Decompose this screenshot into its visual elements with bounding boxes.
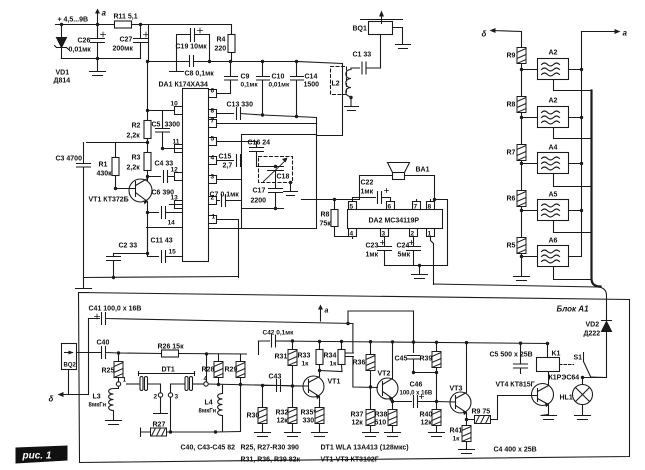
svg-text:1мк: 1мк xyxy=(361,189,374,196)
svg-text:R9 75: R9 75 xyxy=(472,409,491,416)
svg-text:R39: R39 xyxy=(420,356,433,363)
pin 7 xyxy=(209,120,317,128)
svg-text:1500: 1500 xyxy=(304,82,320,89)
filter A2 #1 xyxy=(538,59,569,80)
resistor R32 12к xyxy=(292,386,294,408)
wire S1 to VD2 line xyxy=(583,376,607,379)
pin 2 xyxy=(209,197,220,205)
diode VD2 xyxy=(602,319,612,378)
capacitor C40 xyxy=(100,347,119,359)
filter A5 xyxy=(538,200,569,221)
svg-text:R36: R36 xyxy=(353,360,366,367)
inductor L3 xyxy=(109,387,119,415)
svg-text:8: 8 xyxy=(428,204,432,211)
capacitor C22 xyxy=(353,192,391,204)
svg-text:2: 2 xyxy=(154,394,158,401)
capacitor C1 xyxy=(351,35,381,75)
svg-text:Д814: Д814 xyxy=(54,78,71,85)
svg-text:L2: L2 xyxy=(332,81,340,88)
capacitor C23 xyxy=(378,244,392,266)
svg-text:K1: K1 xyxy=(552,351,561,358)
capacitor C15 xyxy=(237,155,242,167)
svg-text:R26 15к: R26 15к xyxy=(158,344,185,351)
svg-text:C4 400 x 25В: C4 400 x 25В xyxy=(494,447,537,454)
box xyxy=(209,135,317,229)
svg-text:R1: R1 xyxy=(99,162,108,169)
svg-text:a: a xyxy=(325,308,329,315)
svg-text:C5 500 x 25В: C5 500 x 25В xyxy=(490,352,533,359)
svg-text:8: 8 xyxy=(211,108,215,115)
transistor VT1 (block) xyxy=(303,376,324,397)
svg-text:R4: R4 xyxy=(217,37,226,44)
capacitor C2 xyxy=(107,254,148,277)
resistor R26 15к xyxy=(162,350,179,357)
svg-text:C10: C10 xyxy=(272,74,285,81)
svg-text:L4: L4 xyxy=(205,400,213,407)
svg-text:R8: R8 xyxy=(321,212,330,219)
svg-text:0,1мк: 0,1мк xyxy=(241,82,259,89)
resistor R11 xyxy=(115,21,132,28)
svg-text:δ: δ xyxy=(49,395,54,404)
resistor R28 xyxy=(218,354,220,385)
pin 5 xyxy=(349,198,357,210)
wire C42 supply rail xyxy=(276,341,548,344)
svg-text:1к: 1к xyxy=(453,436,461,443)
diode VD1 zener xyxy=(61,25,63,59)
svg-text:C7 0,1мк: C7 0,1мк xyxy=(210,192,240,199)
inductor L2 dashed screen xyxy=(331,67,347,95)
svg-text:R29: R29 xyxy=(225,367,238,374)
svg-text:75к: 75к xyxy=(320,221,332,228)
svg-text:C15: C15 xyxy=(219,154,232,161)
resistor R7 xyxy=(517,145,526,161)
op-amp DA2 МС34119Р xyxy=(348,210,443,229)
resistor R29 xyxy=(240,354,242,432)
capacitor C27 xyxy=(134,25,148,59)
svg-text:R31, R36, R39 82к: R31, R36, R39 82к xyxy=(241,457,301,464)
svg-text:DA2 МС34119Р: DA2 МС34119Р xyxy=(369,218,420,225)
capacitor C24 xyxy=(407,244,421,266)
transistor VT2 xyxy=(377,378,398,399)
resistor R27 xyxy=(141,428,216,437)
svg-text:A5: A5 xyxy=(549,192,558,199)
svg-text:15: 15 xyxy=(169,249,177,256)
svg-text:C9: C9 xyxy=(241,74,250,81)
node a arrow up xyxy=(97,11,99,25)
svg-text:3: 3 xyxy=(382,231,386,238)
junction dots rail xyxy=(208,60,298,118)
svg-text:3: 3 xyxy=(175,394,179,401)
supply label xyxy=(58,17,89,24)
capacitor C10 xyxy=(257,62,270,116)
stub terminal xyxy=(170,62,184,72)
svg-text:330: 330 xyxy=(303,418,315,425)
wire base rail xyxy=(87,142,148,144)
wire loop top xyxy=(348,311,414,353)
resistor R2 xyxy=(144,121,151,139)
svg-text:R9: R9 xyxy=(507,53,516,60)
pin 8 xyxy=(427,200,435,210)
svg-text:L3: L3 xyxy=(93,394,101,401)
wire C41 left drop xyxy=(88,319,90,395)
svg-text:5: 5 xyxy=(350,204,354,211)
svg-text:C5: C5 xyxy=(152,122,161,129)
svg-text:Блок А1: Блок А1 xyxy=(557,305,590,314)
svg-text:a: a xyxy=(102,9,107,18)
resistor R8 xyxy=(517,97,526,113)
resistor R6 xyxy=(517,191,526,207)
switch S1 xyxy=(560,364,574,366)
svg-text:R5: R5 xyxy=(507,243,516,250)
wire BA1 right xyxy=(405,176,435,200)
pin 3 xyxy=(209,176,242,184)
svg-text:C8 0,1мк: C8 0,1мк xyxy=(185,71,215,78)
svg-text:Д222: Д222 xyxy=(584,331,601,338)
svg-text:C24: C24 xyxy=(397,243,410,250)
svg-text:BQ2: BQ2 xyxy=(64,363,77,369)
svg-text:3300: 3300 xyxy=(165,122,181,129)
svg-text:VT3: VT3 xyxy=(450,386,463,393)
wire VT1 collector to C44 loop xyxy=(320,371,343,372)
pin 4 xyxy=(349,229,357,239)
wire C45 bottom xyxy=(414,372,437,374)
svg-text:1к: 1к xyxy=(330,361,338,368)
node 1 xyxy=(118,378,120,382)
resistor R36 xyxy=(370,342,372,388)
capacitor C44 xyxy=(345,324,378,388)
node a arrow up in block xyxy=(320,308,322,322)
svg-text:δ: δ xyxy=(482,30,487,39)
wire L4/R29 bottom rail xyxy=(216,431,241,434)
delay line DT1 xyxy=(162,367,175,374)
svg-text:7: 7 xyxy=(211,118,215,125)
svg-text:14: 14 xyxy=(168,220,176,227)
svg-text:3: 3 xyxy=(211,174,215,181)
wire from pin7/box to DA2 area xyxy=(302,199,353,201)
pin 4 xyxy=(209,157,234,165)
wire R2 column xyxy=(147,62,149,181)
svg-text:1: 1 xyxy=(123,377,127,384)
capacitor C8 xyxy=(190,56,194,67)
wire bottom rail xyxy=(84,277,239,278)
resistor R39 xyxy=(436,343,438,402)
inductor L4 xyxy=(218,385,223,432)
wire supply vertical xyxy=(148,25,150,62)
svg-text:8мкГн: 8мкГн xyxy=(89,403,107,409)
pin 7 xyxy=(413,200,421,210)
resistor R1 xyxy=(115,143,117,189)
capacitor C45 xyxy=(408,356,420,373)
svg-text:R37: R37 xyxy=(351,412,364,419)
resistor R25 xyxy=(118,353,120,362)
resistor R8 xyxy=(335,200,353,237)
wire top supply rail xyxy=(56,24,232,26)
capacitor C46 xyxy=(393,396,437,408)
svg-text:HL1: HL1 xyxy=(560,395,573,402)
svg-text:C40: C40 xyxy=(97,340,110,347)
svg-text:DA1 К174ХА34: DA1 К174ХА34 xyxy=(159,82,209,89)
svg-text:S1: S1 xyxy=(574,355,583,362)
transistor VT1 КТ372Б xyxy=(129,179,152,202)
svg-text:VT1: VT1 xyxy=(328,379,341,386)
svg-text:VT4 КТ815Г: VT4 КТ815Г xyxy=(496,382,535,389)
capacitor C6 xyxy=(148,205,183,219)
svg-text:C17: C17 xyxy=(253,188,266,195)
resistor R41 1к xyxy=(466,420,468,426)
svg-text:4: 4 xyxy=(211,155,215,162)
wire bus horizontal xyxy=(434,284,607,319)
svg-text:BQ1: BQ1 xyxy=(353,26,368,33)
svg-text:11: 11 xyxy=(173,139,180,146)
node a arrow xyxy=(582,31,617,33)
resistor R3 xyxy=(144,153,151,171)
pin 14 xyxy=(147,227,183,229)
svg-text:1: 1 xyxy=(212,214,216,221)
svg-text:R27: R27 xyxy=(153,422,166,429)
svg-text:C4 33: C4 33 xyxy=(155,161,174,168)
resistor R4 xyxy=(231,25,233,62)
pin 11 xyxy=(163,145,183,153)
svg-text:2,2к: 2,2к xyxy=(127,165,141,172)
capacitor C19 xyxy=(177,35,210,62)
capacitor C14 xyxy=(291,62,304,117)
svg-text:C23: C23 xyxy=(366,243,379,250)
svg-text:a: a xyxy=(623,29,628,38)
capacitor C9 xyxy=(225,62,238,94)
filter A2 #2 xyxy=(538,107,569,128)
svg-text:R28: R28 xyxy=(202,367,215,374)
pin 1 xyxy=(427,229,435,285)
pin 5 xyxy=(209,138,257,146)
svg-text:5мк: 5мк xyxy=(398,252,411,259)
capacitor C13 xyxy=(237,108,317,124)
svg-text:5: 5 xyxy=(211,136,215,143)
capacitor C17 xyxy=(269,189,283,209)
wire BQ2 to C40 xyxy=(77,352,100,354)
inductor L2 coil xyxy=(346,68,351,106)
ground xyxy=(76,278,92,293)
svg-text:100,0 x 16В: 100,0 x 16В xyxy=(400,391,433,397)
pin 2 xyxy=(410,229,418,244)
pin 13 xyxy=(170,201,183,209)
pin 12 xyxy=(171,173,183,181)
pin 6 xyxy=(387,198,395,210)
ground L3 xyxy=(106,415,122,425)
svg-text:R6: R6 xyxy=(507,196,516,203)
capacitor C41 xyxy=(89,313,353,325)
svg-text:C1 33: C1 33 xyxy=(353,52,372,59)
svg-text:4: 4 xyxy=(350,231,354,238)
svg-text:VT2: VT2 xyxy=(378,371,391,378)
svg-text:C27: C27 xyxy=(120,37,133,44)
svg-text:R25: R25 xyxy=(102,368,115,375)
svg-text:C41 100,0 x 16В: C41 100,0 x 16В xyxy=(89,306,142,313)
svg-text:C2 33: C2 33 xyxy=(119,243,138,250)
ground c18 xyxy=(284,183,298,196)
svg-text:R25, R27-R30 390: R25, R27-R30 390 xyxy=(241,445,299,452)
svg-text:C43: C43 xyxy=(269,374,282,381)
svg-text:DT1 WLA 13A413 (128мкс): DT1 WLA 13A413 (128мкс) xyxy=(321,445,409,452)
filter A6 xyxy=(538,246,569,267)
capacitor C16 xyxy=(250,148,264,167)
svg-text:R7: R7 xyxy=(507,150,516,157)
wire pin7 extension xyxy=(297,62,343,136)
relay K1 xyxy=(537,358,560,372)
lamp HL1 xyxy=(573,385,593,405)
svg-text:A2: A2 xyxy=(549,98,558,105)
svg-text:12к: 12к xyxy=(421,420,433,427)
svg-text:1к: 1к xyxy=(302,361,310,368)
svg-text:2,7: 2,7 xyxy=(223,163,233,170)
svg-text:VT1-VT3 КТ3102Г: VT1-VT3 КТ3102Г xyxy=(321,457,379,464)
capacitor C18 variable (dashed) xyxy=(259,157,293,183)
svg-text:510: 510 xyxy=(375,420,387,427)
wire pin5 into box xyxy=(256,142,258,148)
svg-text:BA1: BA1 xyxy=(416,167,430,174)
svg-text:A6: A6 xyxy=(549,238,558,245)
junction dots xyxy=(112,60,164,279)
wire DA2 bottom rail xyxy=(385,265,448,267)
capacitor C11 xyxy=(148,228,166,263)
svg-text:R2: R2 xyxy=(132,123,141,130)
capacitor C43 xyxy=(264,380,293,392)
wire c17 bottom xyxy=(242,208,284,210)
svg-text:2200: 2200 xyxy=(251,198,267,205)
svg-text:R34: R34 xyxy=(324,353,337,360)
resistor R40 12к xyxy=(436,402,438,410)
wire main y353 xyxy=(119,353,247,354)
svg-text:220: 220 xyxy=(215,46,227,53)
capacitor C5 500x25В xyxy=(514,343,528,373)
crystal BQ1 xyxy=(361,19,403,21)
svg-text:6: 6 xyxy=(388,204,392,211)
svg-text:12к: 12к xyxy=(277,418,289,425)
wire emitter down xyxy=(147,213,149,254)
svg-text:R35*: R35* xyxy=(301,410,317,417)
pin 6 xyxy=(209,90,231,98)
ground xyxy=(412,266,428,279)
svg-text:A2: A2 xyxy=(549,50,558,57)
node δ arrow out xyxy=(61,394,89,396)
resistor R9 75 xyxy=(467,396,532,420)
svg-text:200мк: 200мк xyxy=(113,46,134,53)
svg-text:C14: C14 xyxy=(305,74,318,81)
svg-text:R40: R40 xyxy=(420,412,433,419)
resistor R5 xyxy=(517,238,526,254)
pin 10 xyxy=(148,107,183,115)
svg-text:R8: R8 xyxy=(507,102,516,109)
speaker BA1 xyxy=(388,163,410,173)
svg-text:+ 4,5...9B: + 4,5...9B xyxy=(58,17,89,24)
capacitor C7 xyxy=(222,195,242,207)
capacitor C26 xyxy=(91,25,105,59)
svg-text:8мкГн: 8мкГн xyxy=(199,409,217,415)
svg-text:C26: C26 xyxy=(78,38,91,45)
svg-text:DT1: DT1 xyxy=(162,367,175,374)
wire output vertical xyxy=(578,32,582,257)
svg-text:A4: A4 xyxy=(549,145,558,152)
svg-text:C46: C46 xyxy=(410,382,423,389)
ground xyxy=(90,59,106,76)
wire bottom power rail xyxy=(62,58,141,60)
svg-text:R3: R3 xyxy=(132,155,141,162)
resistor R37 12к xyxy=(370,389,372,410)
svg-text:2: 2 xyxy=(411,231,415,238)
node δ arrow xyxy=(493,31,522,32)
pin 15 xyxy=(166,256,183,258)
svg-text:1: 1 xyxy=(428,231,432,238)
svg-text:C13 330: C13 330 xyxy=(227,102,254,109)
resistor R34 1к xyxy=(341,342,343,350)
svg-text:R41: R41 xyxy=(450,428,463,435)
ground L2 xyxy=(345,107,359,111)
notes text xyxy=(181,445,537,464)
wire BA1 left xyxy=(353,176,393,200)
svg-text:R33: R33 xyxy=(298,353,311,360)
svg-text:C6 390: C6 390 xyxy=(152,190,175,197)
svg-text:C40, C43-C45 82: C40, C43-C45 82 xyxy=(181,445,236,452)
рис. 1 black label xyxy=(16,446,68,464)
pin 1 xyxy=(209,216,239,278)
svg-text:10: 10 xyxy=(171,101,179,108)
wire pin8 to right vertical xyxy=(435,200,448,266)
svg-text:430к: 430к xyxy=(97,171,113,178)
junction dots xyxy=(333,198,436,267)
svg-text:R30: R30 xyxy=(247,413,260,420)
svg-text:2,2к: 2,2к xyxy=(127,133,141,140)
svg-text:R31: R31 xyxy=(275,354,288,361)
svg-text:R11 5,1: R11 5,1 xyxy=(114,14,138,21)
resistor R9 xyxy=(517,48,526,64)
pin 3 xyxy=(381,229,389,244)
svg-text:12к: 12к xyxy=(352,420,364,427)
svg-text:1мк: 1мк xyxy=(366,252,379,259)
junction dots block xyxy=(117,322,584,434)
wire c16 to c17 xyxy=(257,167,276,189)
svg-text:C11 43: C11 43 xyxy=(151,238,173,245)
wire y61 rail xyxy=(149,61,297,63)
transistor VT3 xyxy=(450,392,471,413)
wire left chain xyxy=(521,32,523,276)
svg-text:C19 10мк: C19 10мк xyxy=(176,44,208,51)
junction dots xyxy=(60,23,142,60)
svg-text:12: 12 xyxy=(171,167,179,174)
svg-text:R38: R38 xyxy=(375,412,388,419)
capacitor C42 xyxy=(259,335,293,355)
resistor R31 xyxy=(292,341,294,386)
svg-text:C3 4700: C3 4700 xyxy=(56,156,83,163)
resistor R33 1к xyxy=(319,341,321,349)
svg-text:рис. 1: рис. 1 xyxy=(22,451,52,462)
svg-text:C42 0,1мк: C42 0,1мк xyxy=(263,330,295,337)
svg-text:6: 6 xyxy=(211,88,215,95)
bus thick vertical xyxy=(592,91,601,287)
svg-text:0,01мк: 0,01мк xyxy=(269,82,290,89)
junction dots chain xyxy=(520,68,583,258)
pin 8 xyxy=(209,110,234,118)
ground chain xyxy=(514,277,530,281)
svg-text:C22: C22 xyxy=(361,180,374,187)
resistor R35* 330 xyxy=(319,407,321,409)
resistor R38 510 xyxy=(392,402,394,410)
microphone BQ2 xyxy=(62,344,77,370)
svg-text:VD2: VD2 xyxy=(586,322,600,329)
node 3 xyxy=(171,384,186,393)
capacitor C5 xyxy=(156,111,183,149)
filter A4 xyxy=(538,153,569,174)
svg-text:C45: C45 xyxy=(395,356,408,363)
svg-text:C18: C18 xyxy=(277,174,290,181)
